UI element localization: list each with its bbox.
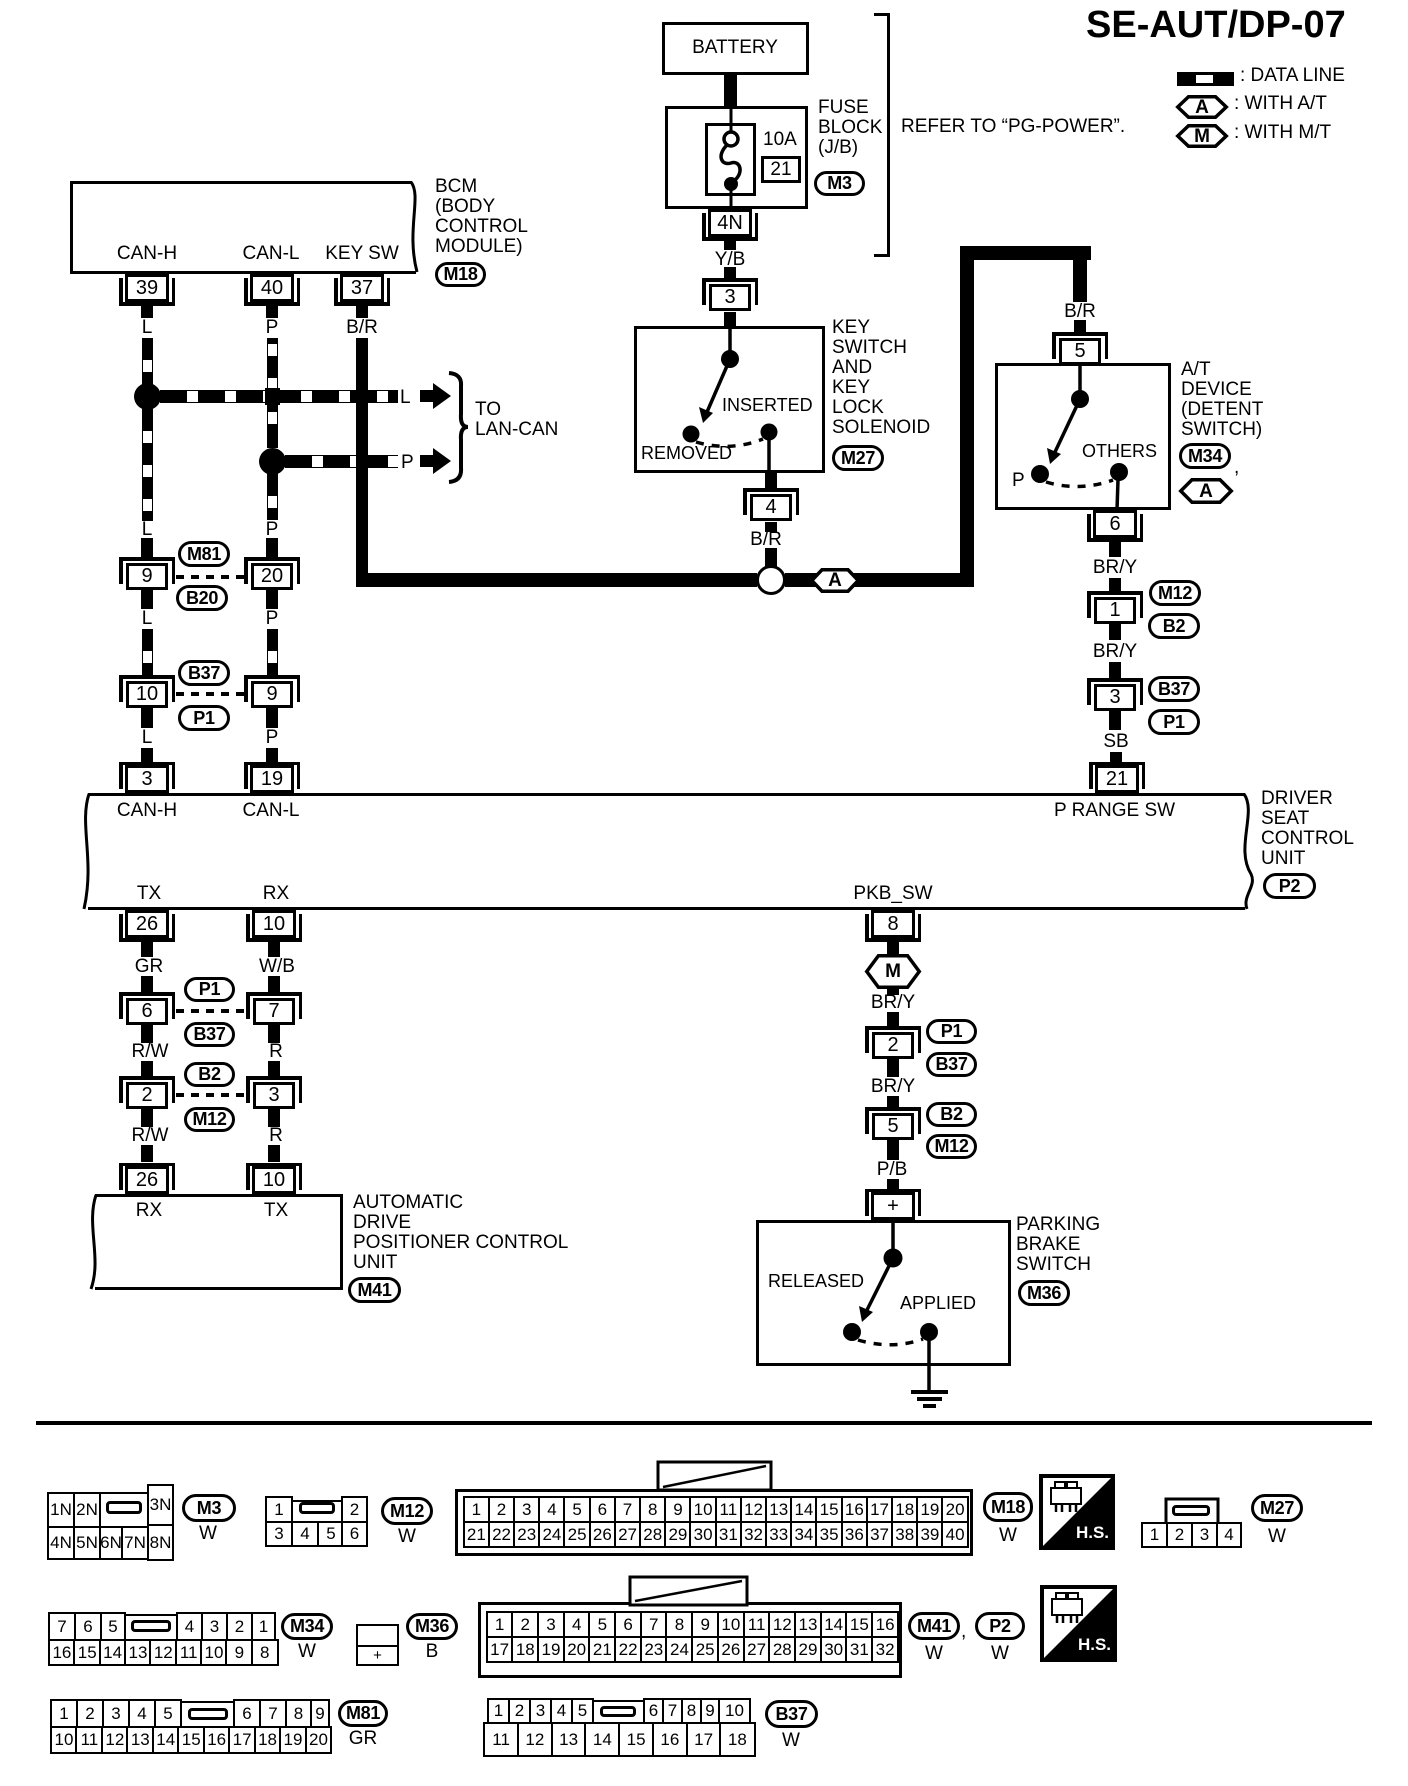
- A/T device detent switch M34 box: [0, 0, 1, 1]
- wire B/R key switch: [0, 0, 1, 1]
- connector view M27: [0, 0, 2, 2]
- pin 37: [340, 274, 384, 302]
- wire CAN-L data line: [0, 0, 1, 1]
- connector M3 oval: [814, 171, 865, 196]
- wire CAN-H data line 2: [0, 0, 1, 1]
- driver seat control unit box P2: [0, 0, 2, 2]
- connector M36 oval: [1018, 1280, 1070, 1306]
- LAN P branch data line: [0, 0, 1, 1]
- connector view M41: [0, 0, 2, 2]
- key switch contacts: [0, 0, 2, 2]
- wire L 3: [0, 0, 1, 1]
- connector P2 oval: [1263, 873, 1316, 899]
- pin 19 CAN-L: [250, 765, 294, 793]
- wire Y/B: [0, 0, 1, 1]
- pin 39: [125, 274, 169, 302]
- automatic drive positioner control unit box M41: [0, 0, 2, 2]
- connector view M18: [0, 0, 2, 2]
- battery: [0, 0, 1, 1]
- wire W/B: [0, 0, 1, 1]
- wire B/R to join: [0, 0, 1, 1]
- pin 8 PKB_SW: [0, 0, 1, 1]
- wire GR: [0, 0, 1, 1]
- connector 3: [0, 0, 1, 1]
- connector view M81: [0, 0, 1, 1]
- pin 6 A/T device: [0, 0, 1, 1]
- connector 1 M12/B2: [0, 0, 1, 1]
- separator line: [36, 1421, 1372, 1425]
- parking brake switch M36 box: [0, 0, 1, 1]
- wire R: [0, 0, 1, 1]
- legend with M/T symbol: [0, 0, 2, 2]
- connector view B37: [0, 0, 1, 1]
- connector 6 P1/B37: [0, 0, 1, 1]
- title SE-AUT/DP-07: [1086, 5, 1346, 45]
- connector 2 P1/B37 pkb: [0, 0, 1, 1]
- wire crossing patch: [265, 388, 280, 405]
- ground: [0, 0, 2, 2]
- svg-text:H.S.: H.S.: [1078, 1635, 1111, 1654]
- connector 9 M81/B20: [0, 0, 1, 1]
- pin 3 key switch: [0, 0, 1, 1]
- fuse 10A 21: [0, 0, 2, 2]
- pin 40: [250, 274, 294, 302]
- connector 10 B37/P1: [0, 0, 1, 1]
- wire P 3: [0, 0, 1, 1]
- pin 26 TX: [0, 0, 1, 1]
- wire BR/Y 2: [0, 0, 1, 1]
- wire SB: [0, 0, 1, 1]
- connector view M12: [0, 0, 1, 1]
- pin 5 A/T device: [1052, 332, 1108, 336]
- refer to PG-POWER bracket: [0, 0, 1, 1]
- wire P 4: [0, 0, 1, 1]
- wire battery to fuse block: [724, 75, 737, 106]
- connector 9 B37/P1: [0, 0, 1, 1]
- LAN L branch data line: [0, 0, 1, 1]
- A/T device contacts: [0, 0, 2, 2]
- pin 10 ADP TX: [252, 1166, 296, 1194]
- pin 3 CAN-H: [125, 765, 169, 793]
- connector M41 oval: [348, 1277, 401, 1303]
- wire R 2: [0, 0, 1, 1]
- key switch and key lock solenoid M27 box: [0, 0, 1, 1]
- with M/T hexagon: [0, 0, 2, 2]
- pin 21 P RANGE SW: [1095, 765, 1139, 793]
- wire CAN-L data line 2: [0, 0, 1, 1]
- legend data line symbol: [0, 0, 1, 1]
- wire P/B: [0, 0, 1, 1]
- TO LAN-CAN brace: [0, 0, 2, 2]
- wire B/R horizontal bus: [0, 0, 1, 1]
- connector 20 M81/B20: [0, 0, 1, 1]
- pin 4 key switch: [0, 0, 1, 1]
- legend with A/T symbol: [0, 0, 2, 2]
- pin 4N: [708, 209, 752, 237]
- connector 2 B2/M12: [0, 0, 1, 1]
- wire L 4: [0, 0, 1, 1]
- pin 10 RX: [0, 0, 1, 1]
- pin + parking brake: [871, 1192, 915, 1220]
- wire B/R right riser: [0, 0, 1, 1]
- connector M18 oval: [435, 262, 486, 287]
- wire BR/Y: [0, 0, 1, 1]
- connector 3 B37/P1: [0, 0, 1, 1]
- wire CAN-H data line: [0, 0, 1, 1]
- wire B/R to pin 5: [0, 0, 1, 1]
- junction circle: [756, 565, 786, 595]
- BCM body control module box M18: [0, 0, 2, 2]
- connector 7: [0, 0, 1, 1]
- wire BR/Y pkb: [0, 0, 1, 1]
- connector 5 B2/M12 pkb: [0, 0, 1, 1]
- junction dot CAN-H: [134, 383, 161, 410]
- connector view M36: [0, 0, 1, 1]
- connector view M34: [0, 0, 1, 1]
- wire R/W: [0, 0, 1, 1]
- connector M27 oval: [832, 445, 884, 471]
- connector M34 oval: [0, 0, 1, 1]
- junction dot CAN-L: [259, 448, 286, 475]
- wire R/W 2: [0, 0, 1, 1]
- parking brake contacts: [0, 0, 2, 2]
- pin 26 ADP RX: [125, 1166, 169, 1194]
- wire BR/Y pkb 2: [0, 0, 1, 1]
- fuse block J/B box M3: [0, 0, 1, 1]
- connector view M3: [0, 0, 1, 1]
